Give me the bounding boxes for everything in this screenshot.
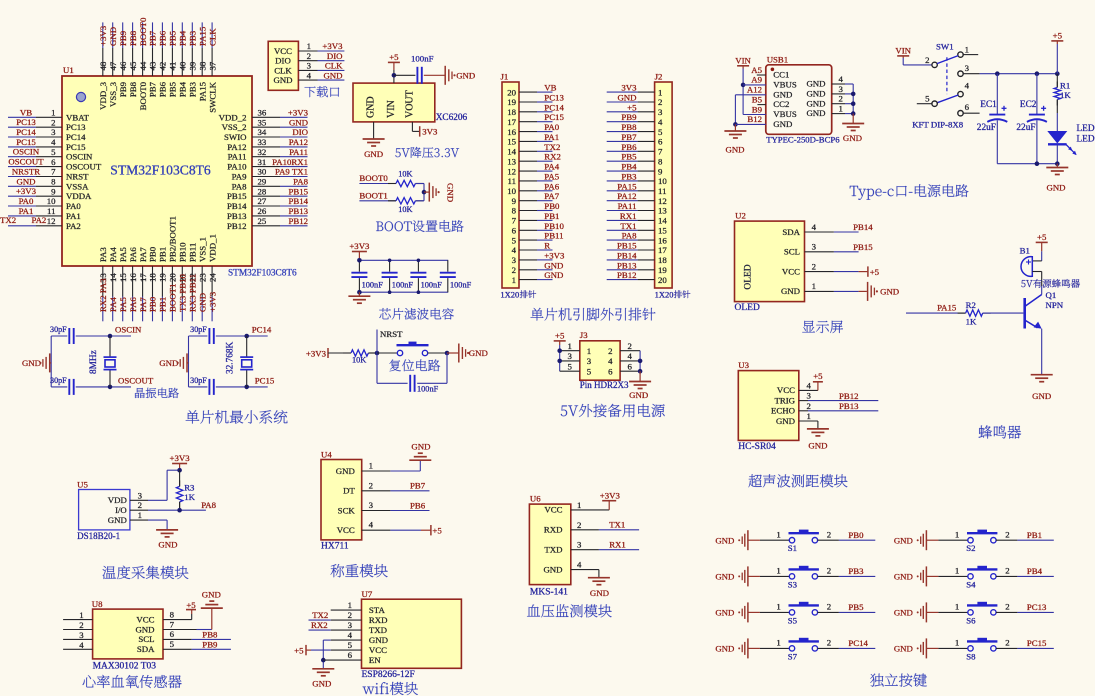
svg-text:MAX30102 T03: MAX30102 T03 [93,662,157,672]
svg-text:PB0: PB0 [544,201,560,211]
svg-text:U4: U4 [321,450,332,460]
svg-text:TYPEC-250D-BCP6: TYPEC-250D-BCP6 [766,135,840,145]
svg-text:3: 3 [307,61,312,71]
svg-text:GND: GND [806,89,825,99]
svg-text:OLED: OLED [735,303,760,313]
svg-text:PB13: PB13 [617,260,637,270]
svg-text:25: 25 [258,216,267,226]
svg-text:+5: +5 [186,600,196,610]
svg-text:34: 34 [258,127,267,137]
svg-text:3: 3 [807,391,812,401]
svg-text:PA6: PA6 [128,297,138,312]
svg-text:3: 3 [965,63,970,73]
svg-text:CLK: CLK [207,28,217,46]
svg-text:PB15: PB15 [617,241,637,251]
svg-text:VIN: VIN [895,45,911,55]
svg-text:A9: A9 [751,75,762,85]
svg-text:CLK: CLK [325,61,343,71]
svg-text:VBUS: VBUS [773,80,797,90]
svg-text:1: 1 [965,45,969,55]
svg-text:PB1: PB1 [1027,530,1042,540]
svg-text:STM32F103C8T6: STM32F103C8T6 [228,269,297,279]
svg-text:6: 6 [348,650,353,660]
svg-text:12: 12 [658,196,667,206]
svg-text:PC14: PC14 [16,127,36,137]
svg-text:2: 2 [839,94,843,104]
svg-text:PB12: PB12 [617,270,637,280]
svg-text:5: 5 [568,361,573,371]
svg-text:100nF: 100nF [421,281,443,290]
svg-text:3V3: 3V3 [621,83,637,93]
svg-text:5: 5 [925,94,930,104]
svg-text:GND: GND [894,535,913,545]
svg-text:RXD: RXD [369,615,388,625]
svg-text:1: 1 [512,275,516,285]
svg-text:KFT DIP-8X8: KFT DIP-8X8 [912,119,964,129]
svg-text:VCC: VCC [369,645,387,655]
svg-text:U7: U7 [362,589,373,599]
svg-text:GND: GND [336,466,355,476]
svg-text:PB0: PB0 [848,530,864,540]
svg-text:4: 4 [807,380,812,390]
svg-text:OSCOUT: OSCOUT [8,157,44,167]
svg-text:+5: +5 [294,645,304,655]
svg-text:11: 11 [508,176,516,186]
svg-text:PA5: PA5 [544,171,559,181]
svg-text:38: 38 [197,61,207,70]
svg-text:PA15: PA15 [197,26,207,46]
svg-text:GND: GND [806,79,825,89]
svg-text:PA9: PA9 [232,172,247,182]
svg-text:TXD: TXD [369,625,387,635]
svg-text:1: 1 [568,341,572,351]
svg-text:STA: STA [369,605,386,615]
svg-text:100nF: 100nF [450,281,472,290]
svg-text:OSCIN: OSCIN [66,152,93,162]
svg-text:VBAT: VBAT [66,112,90,122]
svg-text:PB14: PB14 [227,201,247,211]
svg-text:PA15: PA15 [937,303,957,313]
svg-text:10: 10 [47,196,56,206]
svg-text:TX1: TX1 [609,520,625,530]
svg-text:12: 12 [47,216,56,226]
svg-text:12: 12 [507,166,516,176]
svg-text:VCC: VCC [544,505,562,515]
svg-text:GND: GND [446,183,456,202]
svg-text:1X20: 1X20 [655,290,674,300]
svg-text:PB2/BOOT1: PB2/BOOT1 [168,216,178,262]
svg-text:GND: GND [469,348,488,358]
svg-text:PB9: PB9 [621,112,637,122]
svg-text:1: 1 [307,41,311,51]
svg-text:PA8: PA8 [232,181,247,191]
svg-text:B1: B1 [1020,246,1030,256]
svg-text:4: 4 [369,520,374,530]
svg-text:48: 48 [98,61,108,70]
svg-text:3: 3 [79,630,84,640]
svg-text:TX1: TX1 [620,221,636,231]
svg-text:8: 8 [170,609,175,619]
svg-text:10: 10 [507,186,516,196]
svg-text:J3: J3 [580,330,588,340]
svg-text:3: 3 [577,540,582,550]
svg-text:PC15: PC15 [544,112,564,122]
svg-text:PB8: PB8 [202,629,218,639]
svg-text:2: 2 [807,401,811,411]
svg-text:22uF: 22uF [977,123,996,133]
svg-text:4: 4 [79,640,84,650]
svg-text:SCL: SCL [138,634,154,644]
svg-text:PA4: PA4 [108,247,118,262]
svg-text:GND: GND [806,98,825,108]
svg-text:40: 40 [178,61,188,70]
svg-text:6: 6 [965,102,970,112]
svg-text:OLED: OLED [744,264,754,289]
svg-text:5: 5 [512,235,517,245]
svg-text:LED: LED [1077,135,1095,145]
svg-text:41: 41 [168,62,178,71]
svg-text:PA10: PA10 [227,162,247,172]
svg-text:RX3 PB11: RX3 PB11 [188,274,198,312]
svg-text:10K: 10K [398,170,412,179]
svg-text:1: 1 [955,602,959,612]
svg-text:5: 5 [51,147,56,157]
svg-text:S6: S6 [966,615,976,625]
svg-text:PA0: PA0 [66,201,81,211]
svg-text:+5: +5 [389,52,399,62]
svg-text:PA11: PA11 [228,152,247,162]
svg-text:GND: GND [629,390,648,400]
svg-text:3: 3 [587,356,592,366]
svg-text:39: 39 [188,61,198,70]
svg-text:1X20: 1X20 [500,290,519,300]
svg-text:GND: GND [808,441,827,451]
svg-text:PB10: PB10 [178,242,188,262]
svg-text:7: 7 [51,167,56,177]
svg-text:J1: J1 [501,72,509,82]
svg-text:GND: GND [715,608,734,618]
svg-text:SW1: SW1 [936,42,954,52]
svg-text:42: 42 [158,62,168,71]
svg-text:PB8: PB8 [621,122,637,132]
svg-text:Q1: Q1 [1046,290,1057,300]
svg-text:GND: GND [411,442,430,452]
svg-text:26: 26 [258,206,267,216]
svg-text:DT: DT [343,486,355,496]
svg-text:2: 2 [577,520,581,530]
svg-text:GND: GND [543,564,562,574]
svg-text:PC14: PC14 [252,325,272,335]
svg-text:PC14: PC14 [66,132,86,142]
svg-text:1: 1 [839,104,843,114]
svg-text:GND: GND [1046,183,1065,193]
svg-text:1: 1 [812,281,816,291]
svg-text:Pin HDR2X3: Pin HDR2X3 [580,380,629,390]
svg-text:23: 23 [197,273,207,282]
svg-text:A12: A12 [747,85,762,95]
svg-text:GND: GND [16,176,35,186]
svg-text:14: 14 [658,216,667,226]
svg-text:3: 3 [369,500,374,510]
svg-text:5: 5 [348,640,353,650]
svg-text:+5: +5 [555,330,565,340]
svg-text:RX2: RX2 [544,152,561,162]
svg-text:24: 24 [207,273,217,282]
svg-text:PC13: PC13 [16,117,36,127]
svg-text:VCC: VCC [777,385,795,395]
svg-text:GND: GND [590,588,609,598]
svg-text:9: 9 [51,186,56,196]
svg-text:EC1: EC1 [980,100,997,110]
svg-text:33: 33 [258,137,267,147]
svg-text:GND: GND [806,108,825,118]
svg-text:S1: S1 [788,543,797,553]
svg-text:4: 4 [965,81,970,91]
svg-text:TX2: TX2 [0,215,16,225]
svg-text:S4: S4 [966,579,976,589]
svg-text:PA12: PA12 [617,191,636,201]
svg-text:PB6: PB6 [158,30,168,46]
svg-text:PA2: PA2 [66,221,81,231]
svg-text:RX2: RX2 [311,620,328,630]
svg-text:U2: U2 [735,211,746,221]
svg-text:+3V3: +3V3 [170,453,191,463]
svg-text:PA0: PA0 [19,196,34,206]
svg-text:VOUT: VOUT [404,90,415,118]
svg-text:MKS-141: MKS-141 [530,588,568,598]
svg-text:2: 2 [512,265,516,275]
svg-text:1: 1 [955,566,959,576]
svg-text:6: 6 [170,629,175,639]
svg-text:+3V3: +3V3 [306,349,327,359]
svg-text:7: 7 [658,147,663,157]
svg-text:15: 15 [507,137,516,147]
svg-text:PA12: PA12 [227,142,246,152]
svg-text:6: 6 [608,366,613,376]
svg-text:B9: B9 [752,104,763,114]
svg-text:GND: GND [289,117,308,127]
svg-text:EC2: EC2 [1020,100,1037,110]
svg-text:BOOT0: BOOT0 [138,81,148,110]
svg-text:OSCOUT: OSCOUT [118,375,154,385]
svg-text:1: 1 [138,510,142,520]
svg-text:19: 19 [158,273,168,282]
svg-text:PA0: PA0 [544,122,559,132]
svg-text:GND: GND [135,624,154,634]
svg-text:PA8: PA8 [201,500,216,510]
svg-text:4: 4 [577,560,582,570]
svg-text:35: 35 [258,117,267,127]
svg-text:VDDA: VDDA [66,191,92,201]
svg-text:A5: A5 [751,65,762,75]
svg-text:PB3: PB3 [848,566,864,576]
svg-text:PA15: PA15 [197,81,207,101]
svg-text:CC1: CC1 [773,70,789,80]
svg-text:VDD_2: VDD_2 [219,112,247,122]
svg-text:GND: GND [617,93,636,103]
svg-text:PA2: PA2 [32,215,47,225]
svg-text:4: 4 [51,137,56,147]
svg-text:VCC: VCC [782,266,800,276]
svg-text:PB15: PB15 [288,186,308,196]
svg-text:PC15: PC15 [16,137,36,147]
svg-text:29: 29 [258,177,267,187]
svg-text:PB13: PB13 [839,401,859,411]
svg-text:1: 1 [51,108,55,118]
svg-text:GND: GND [781,286,800,296]
svg-text:2: 2 [827,529,831,539]
svg-text:15: 15 [118,273,128,282]
svg-text:PC15: PC15 [66,142,86,152]
svg-text:46: 46 [118,61,128,70]
svg-text:43: 43 [148,61,158,70]
svg-text:11: 11 [658,186,666,196]
svg-text:22uF: 22uF [1016,123,1035,133]
svg-text:U3: U3 [738,360,749,370]
svg-text:GND: GND [158,540,177,550]
svg-text:VIN: VIN [735,55,751,65]
svg-text:+3V3: +3V3 [600,491,621,501]
svg-text:VB: VB [20,107,32,117]
svg-text:VDD: VDD [108,495,127,505]
svg-text:+3V3: +3V3 [349,241,370,251]
svg-text:TX2: TX2 [544,142,560,152]
svg-text:3: 3 [512,255,517,265]
svg-text:2: 2 [51,117,55,127]
svg-text:1: 1 [776,529,780,539]
svg-text:RX1: RX1 [620,211,637,221]
svg-text:LED: LED [1077,124,1095,134]
svg-text:PB4: PB4 [178,81,188,97]
svg-text:2: 2 [138,500,142,510]
svg-text:19: 19 [658,265,667,275]
svg-text:VIN: VIN [386,100,397,118]
svg-text:XC6206: XC6206 [436,113,468,123]
svg-text:5: 5 [587,366,592,376]
svg-text:PB7: PB7 [621,132,637,142]
svg-text:PA6: PA6 [544,181,559,191]
svg-text:4: 4 [658,117,663,127]
svg-text:NPN: NPN [1046,300,1064,310]
svg-text:PB1: PB1 [158,247,168,262]
svg-text:GND: GND [323,70,342,80]
svg-text:+5: +5 [627,102,637,112]
svg-text:7: 7 [512,216,517,226]
svg-text:2: 2 [827,602,831,612]
svg-text:PB5: PB5 [621,152,637,162]
svg-text:+3V3: +3V3 [544,250,565,260]
svg-text:PC14: PC14 [848,638,868,648]
svg-text:PA11: PA11 [289,147,308,157]
svg-text:GND: GND [108,515,127,525]
svg-text:PB8: PB8 [128,81,138,97]
svg-text:GND: GND [202,589,221,599]
svg-text:CC2: CC2 [773,99,789,109]
svg-text:U8: U8 [92,599,103,609]
svg-text:PB0: PB0 [148,296,158,312]
svg-text:PB13: PB13 [227,211,247,221]
svg-text:GND: GND [366,96,377,118]
svg-text:+3V3: +3V3 [207,291,217,312]
svg-text:VCC: VCC [337,525,355,535]
svg-text:PB7: PB7 [410,481,426,491]
svg-text:STM32F103C8T6: STM32F103C8T6 [110,163,211,178]
svg-text:NRST: NRST [66,172,89,182]
svg-text:17: 17 [507,117,516,127]
svg-text:20: 20 [168,273,178,282]
svg-text:13: 13 [507,156,516,166]
svg-text:GND: GND [22,358,41,368]
svg-text:20: 20 [658,275,667,285]
svg-text:+3V3: +3V3 [98,25,108,46]
svg-text:S5: S5 [788,615,798,625]
svg-text:RX1: RX1 [609,540,626,550]
svg-text:5: 5 [170,639,175,649]
svg-text:PB1: PB1 [158,297,168,312]
svg-text:1K: 1K [1060,90,1071,100]
svg-text:GND: GND [715,572,734,582]
svg-text:18: 18 [507,107,516,117]
svg-text:1: 1 [658,87,662,97]
svg-text:GND: GND [364,149,383,159]
svg-text:PB12: PB12 [288,216,308,226]
svg-text:USB1: USB1 [767,55,789,65]
svg-text:TX2: TX2 [312,610,328,620]
svg-text:13: 13 [658,206,667,216]
svg-text:PA5: PA5 [118,247,128,262]
svg-text:GND: GND [544,260,563,270]
svg-text:10K: 10K [352,356,366,365]
svg-text:+5: +5 [870,267,880,277]
svg-text:32.768K: 32.768K [226,341,236,374]
svg-text:GND: GND [108,27,118,46]
svg-text:32: 32 [258,147,267,157]
svg-text:GND: GND [273,75,292,85]
svg-text:1: 1 [776,602,780,612]
svg-text:GND: GND [369,635,388,645]
svg-text:31: 31 [258,157,267,167]
svg-text:SWIO: SWIO [224,132,246,142]
svg-text:2: 2 [79,620,83,630]
svg-text:PB14: PB14 [853,222,873,232]
svg-text:PA3: PA3 [98,247,108,262]
svg-text:GND: GND [197,293,207,312]
svg-text:6: 6 [658,137,663,147]
svg-text:PB12: PB12 [227,221,247,231]
svg-text:2: 2 [608,346,612,356]
svg-text:DIO: DIO [275,56,291,66]
svg-text:PA1: PA1 [544,132,559,142]
svg-text:TXD: TXD [544,545,562,555]
svg-text:VDD_3: VDD_3 [98,81,108,109]
svg-text:VDD_1: VDD_1 [207,234,217,262]
svg-text:30pF: 30pF [50,376,67,385]
svg-text:18: 18 [658,255,667,265]
svg-text:S7: S7 [788,651,798,661]
svg-text:TX3 PB10: TX3 PB10 [178,274,188,312]
svg-text:8: 8 [51,177,56,187]
svg-text:18: 18 [148,273,158,282]
svg-text:45: 45 [128,61,138,70]
svg-text:3: 3 [138,490,143,500]
svg-text:1: 1 [955,529,959,539]
svg-text:GND: GND [880,287,899,297]
svg-text:GND: GND [715,535,734,545]
svg-text:6: 6 [628,361,633,371]
svg-text:SDA: SDA [782,227,800,237]
svg-text:2: 2 [1005,602,1009,612]
svg-text:CLK: CLK [274,65,292,75]
